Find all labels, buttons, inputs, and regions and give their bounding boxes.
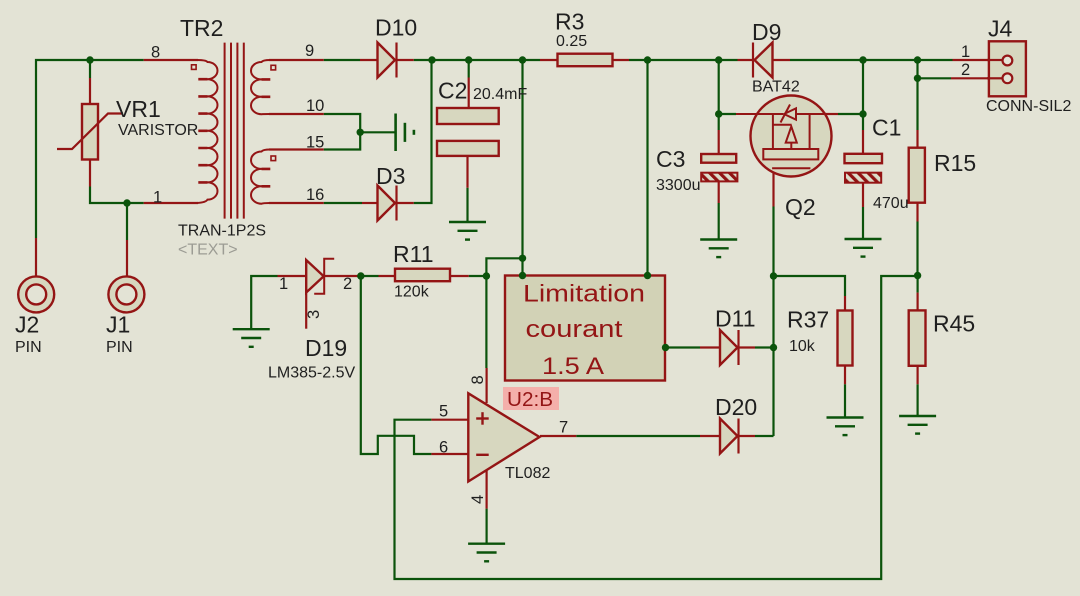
svg-text:U2:B: U2:B xyxy=(507,389,553,411)
svg-text:1.5 A: 1.5 A xyxy=(542,353,604,380)
svg-text:TL082: TL082 xyxy=(505,465,550,482)
svg-text:D19: D19 xyxy=(305,335,347,361)
svg-text:15: 15 xyxy=(306,134,324,152)
svg-text:1: 1 xyxy=(153,189,162,207)
svg-text:TRAN-1P2S: TRAN-1P2S xyxy=(178,223,266,240)
svg-text:3: 3 xyxy=(305,310,323,319)
svg-text:1: 1 xyxy=(961,43,970,61)
svg-text:6: 6 xyxy=(439,439,448,457)
svg-text:D9: D9 xyxy=(752,19,781,45)
svg-text:courant: courant xyxy=(526,316,623,343)
svg-text:10: 10 xyxy=(306,97,324,115)
svg-text:8: 8 xyxy=(469,375,487,384)
svg-text:D10: D10 xyxy=(375,15,417,41)
svg-text:CONN-SIL2: CONN-SIL2 xyxy=(986,98,1071,115)
svg-text:BAT42: BAT42 xyxy=(752,79,800,96)
svg-text:TR2: TR2 xyxy=(180,15,223,41)
svg-text:D20: D20 xyxy=(715,394,757,420)
svg-text:<TEXT>: <TEXT> xyxy=(178,242,238,259)
svg-text:10k: 10k xyxy=(789,338,816,355)
svg-text:R11: R11 xyxy=(393,241,434,267)
svg-text:20.4mF: 20.4mF xyxy=(473,86,527,103)
svg-text:R37: R37 xyxy=(787,307,829,333)
svg-text:C1: C1 xyxy=(872,115,901,141)
svg-text:PIN: PIN xyxy=(106,339,133,356)
svg-text:9: 9 xyxy=(305,42,314,60)
svg-text:0.25: 0.25 xyxy=(556,33,587,50)
svg-text:J4: J4 xyxy=(988,16,1013,42)
svg-text:1: 1 xyxy=(279,275,288,293)
svg-text:C3: C3 xyxy=(656,146,685,172)
svg-text:J1: J1 xyxy=(106,312,130,338)
svg-text:3300u: 3300u xyxy=(656,177,701,194)
svg-text:7: 7 xyxy=(559,419,568,437)
svg-text:R3: R3 xyxy=(555,9,584,35)
svg-text:4: 4 xyxy=(469,495,487,504)
svg-text:Limitation: Limitation xyxy=(523,281,645,308)
svg-text:2: 2 xyxy=(343,275,352,293)
svg-text:5: 5 xyxy=(439,403,448,421)
svg-text:470u: 470u xyxy=(873,195,909,212)
svg-text:D3: D3 xyxy=(376,163,405,189)
svg-text:120k: 120k xyxy=(394,284,430,301)
svg-text:R15: R15 xyxy=(934,150,976,176)
svg-text:J2: J2 xyxy=(15,312,39,338)
svg-text:VARISTOR: VARISTOR xyxy=(118,122,198,139)
svg-text:VR1: VR1 xyxy=(116,96,161,122)
svg-text:D11: D11 xyxy=(715,306,756,332)
svg-text:16: 16 xyxy=(306,186,324,204)
svg-text:PIN: PIN xyxy=(15,339,42,356)
svg-text:2: 2 xyxy=(961,61,970,79)
svg-text:Q2: Q2 xyxy=(785,194,816,220)
svg-text:C2: C2 xyxy=(438,78,467,104)
svg-text:8: 8 xyxy=(151,44,160,62)
svg-text:R45: R45 xyxy=(933,311,975,337)
svg-text:LM385-2.5V: LM385-2.5V xyxy=(268,365,355,382)
